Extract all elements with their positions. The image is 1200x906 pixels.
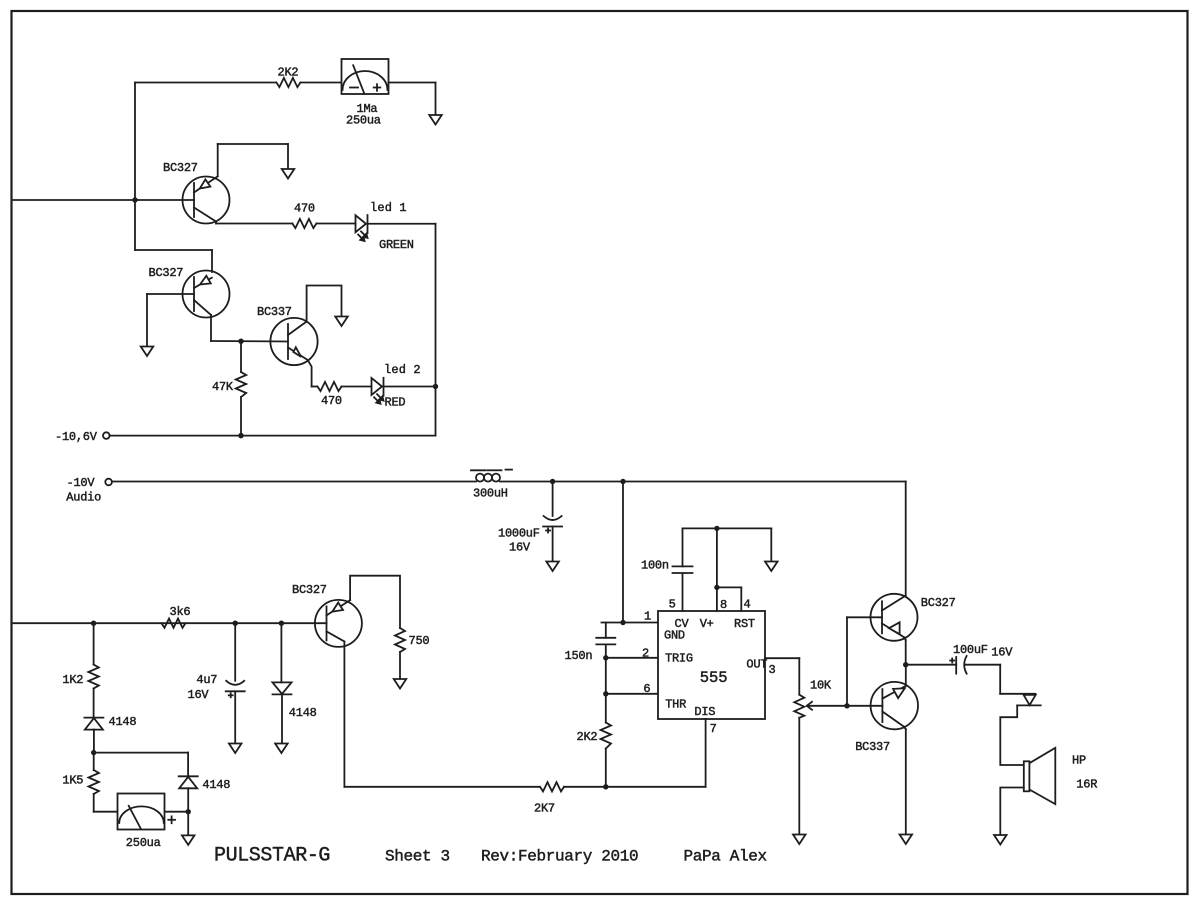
wire pin 1 GND [602,622,659,624]
wire Q4 emitter to output node [905,638,906,665]
svg-text:100n: 100n [641,559,669,573]
svg-text:THR: THR [665,697,686,711]
pin number 3 [769,663,776,677]
svg-text:4: 4 [744,598,751,612]
terminal -10,6V [55,430,110,444]
transistor Q1 BC327 [163,161,230,224]
wire connector to speaker [1000,705,1024,765]
diode 4148 D3 [273,682,317,720]
wire 470 to led1 [316,223,355,225]
wire Q2 collector down [211,315,288,342]
node pin2 junction [603,655,608,660]
node pin8 top junction [714,526,719,531]
node Q2/Q3/47K junction [238,339,243,344]
resistor 47K [212,341,246,435]
wire -10V rail left [112,481,476,483]
transistor Q4 BC327 [871,594,956,641]
svg-text:RST: RST [734,617,755,631]
svg-text:1000uF: 1000uF [498,527,540,541]
title PULSSTAR-G [214,845,330,868]
wire pin 2 TRIG [606,657,658,659]
svg-text:GREEN: GREEN [379,238,414,252]
meter M2 250ua [118,794,176,851]
capacitor 100uF 16V [950,643,1013,674]
resistor 2K2 [276,66,300,88]
pin number 1 [644,610,651,624]
wire Q4 collector to rail [905,482,907,596]
wire D1 to junction [93,730,95,753]
resistor 2K7 [534,782,564,815]
svg-text:led 1: led 1 [370,201,407,215]
pin number 7 [710,722,717,736]
wire 4148 D3 top [280,623,282,682]
diode 4148 D1 [84,715,136,730]
meter M1 1Ma 250ua [342,59,389,128]
wire to ground M2 [187,812,189,835]
node 555 supply junction [620,479,625,484]
svg-text:16V: 16V [188,688,210,702]
resistor 1K2 [62,665,98,689]
svg-text:HP: HP [1072,754,1086,768]
svg-text:led 2: led 2 [384,363,421,377]
ground Q3 collector [335,317,348,327]
svg-text:GND: GND [664,629,685,643]
svg-text:Rev:February 2010: Rev:February 2010 [481,848,638,866]
svg-text:BC337: BC337 [855,740,890,754]
svg-text:1K2: 1K2 [62,673,83,687]
svg-text:BC327: BC327 [292,583,327,597]
svg-text:BC337: BC337 [257,305,292,319]
node 4u7 junction [233,621,238,626]
ground Q1 emitter [282,169,295,179]
node pin4 branch junction [714,585,719,590]
svg-text:8: 8 [720,598,727,612]
wire Q3 collector to ground [307,286,342,322]
wire D3 to ground [281,694,283,743]
ground M2 [182,835,195,845]
diode 4148 D2 [179,776,231,792]
wire input net to Q1 base [14,199,195,201]
resistor 2K2 timing [577,723,612,749]
capacitor 4u7 16V [188,673,245,702]
svg-text:1: 1 [644,610,651,624]
svg-text:555: 555 [700,669,728,687]
ground D3 [275,744,288,754]
node output junction [903,662,908,667]
svg-text:5: 5 [669,598,676,612]
wire Q6 collector down [344,642,539,787]
wire meter to ground [389,83,436,115]
svg-text:V+: V+ [700,617,714,631]
svg-text:4148: 4148 [109,715,137,729]
svg-text:47K: 47K [212,380,234,394]
wire -10,6V rail [110,435,436,437]
wire pin 7 DIS [705,719,707,787]
ground Q2 base [141,347,154,357]
pin number 8 [720,598,727,612]
capacitor 1000uF 16V [498,516,562,555]
wire 1K5 top [93,753,95,770]
wire 150n top [605,623,607,638]
subtitle PaPa Alex [684,848,767,866]
potentiometer 10K [794,679,847,718]
pin number 5 [669,598,676,612]
svg-text:PaPa Alex: PaPa Alex [684,848,767,866]
wire 2K7 to DIS [564,786,706,788]
wire pin 4 RST [717,587,741,611]
wire Q6 emitter over to 750 [350,576,400,628]
node pin6 junction [603,691,608,696]
node meter out junction [186,809,191,814]
capacitor 100n [641,559,693,574]
wire pin 3 OUT [765,658,799,694]
wire -10V rail right [500,481,906,483]
wire D2 to meter out [187,788,189,812]
wire 4u7 to ground [234,691,236,743]
wire pin 8 V+ [716,528,718,611]
svg-text:4u7: 4u7 [196,673,217,687]
node wiper junction [844,703,849,708]
svg-text:7: 7 [710,722,717,736]
wire audio input net [14,622,327,624]
subtitle Rev February 2010 [481,848,638,866]
wire 100n to ground rail [683,528,772,566]
transistor Q2 BC327 [149,266,230,318]
wire pot to ground [798,718,800,834]
wire 1K5 to meter [94,794,118,812]
svg-text:470: 470 [294,202,315,216]
node 47K bottom junction [238,433,243,438]
pin number 2 [642,647,649,661]
ground 750 [394,679,407,689]
ground speaker [994,835,1007,845]
LED led1 GREEN [356,201,414,252]
wire 1K2 to diode [93,689,95,718]
inductor 300uH [471,470,512,501]
wire 150n to pin2/pin6/2K2 [605,644,607,722]
svg-text:2K2: 2K2 [278,66,299,80]
transistor Q3 BC337 [257,305,318,387]
wire Q5 emitter to output node [905,665,907,686]
terminal -10V Audio [66,476,112,505]
wire 1000uF top [552,482,554,517]
LED led2 RED [372,363,421,410]
wire 1K2 top [93,623,95,664]
svg-text:4148: 4148 [289,706,317,720]
wire 470b to led2 [342,386,372,388]
svg-text:3: 3 [769,663,776,677]
svg-text:BC327: BC327 [149,266,184,280]
pin number 4 [744,598,751,612]
wire 2K2 to meter [300,82,341,84]
node junction input/2K2 branch [132,197,137,202]
svg-text:16R: 16R [1076,778,1097,792]
wire junction to D2 branch [94,753,188,777]
svg-text:16V: 16V [991,646,1013,660]
node pin1 junction [620,620,625,625]
svg-text:2K2: 2K2 [577,730,598,744]
svg-text:4148: 4148 [202,778,230,792]
wire Q2 base to ground [147,294,194,346]
wire output to 100uF [906,664,957,666]
svg-text:Audio: Audio [66,491,101,505]
svg-text:250ua: 250ua [126,836,161,850]
svg-text:6: 6 [643,682,650,696]
connector arrow symbol [1017,695,1040,706]
wire 100uF to connector [964,665,1035,694]
ground 100n rail [765,562,778,572]
wire 750 to ground [399,652,401,679]
node 1K5 junction [91,750,96,755]
wire pin 5 CV [682,573,684,611]
svg-text:2: 2 [642,647,649,661]
svg-text:750: 750 [409,634,430,648]
transistor Q6 BC327 [292,583,362,647]
wire pin 6 THR [606,693,658,695]
wire led1 to right bus [368,223,436,225]
wire Q5 collector to ground [904,727,906,834]
ground 1000uF [546,562,559,572]
svg-text:-10V: -10V [67,476,96,490]
wire meter M2 out [165,811,189,813]
svg-text:BC327: BC327 [163,161,198,175]
transistor Q5 BC337 [855,682,918,754]
resistor 3k6 [162,605,191,628]
wire 2K2 to DIS net [605,749,607,787]
svg-text:OUT: OUT [746,657,767,671]
wire wiper to Q4 base [847,617,882,706]
ground 4u7 [229,744,242,754]
speaker HP 16R [1024,748,1097,804]
wire Q1 emitter to ground [218,144,288,176]
wire wiper to Q5 base [847,705,882,707]
wire Q2 emitter up [135,250,212,272]
node 1000uF junction [550,479,555,484]
node DIS junction [603,784,608,789]
ground pot [793,835,806,845]
svg-text:BC327: BC327 [921,596,956,610]
svg-text:Sheet 3: Sheet 3 [385,848,450,866]
resistor 470 led1 [292,202,316,229]
resistor 1K5 [62,770,99,794]
svg-text:250ua: 250ua [346,114,381,128]
wire to resistor R 2K2 [135,82,276,84]
svg-text:16V: 16V [509,541,531,555]
node 1K2 junction [91,621,96,626]
node 4148 junction [279,621,284,626]
svg-text:150n: 150n [565,649,593,663]
ground Q5 [900,835,913,845]
svg-text:470: 470 [321,394,342,408]
svg-text:100uF: 100uF [953,643,988,657]
svg-text:DIS: DIS [694,705,715,719]
svg-text:TRIG: TRIG [665,651,693,665]
pin number 6 [643,682,650,696]
wire 1000uF to ground [552,527,554,562]
node led2 junction [433,384,438,389]
wire speaker to ground [1000,788,1024,835]
wire 2K2 branch vertical [134,83,136,251]
svg-text:300uH: 300uH [473,487,508,501]
wire right bus vertical [435,224,437,436]
resistor 750 [395,628,429,652]
svg-text:10K: 10K [810,679,832,693]
subtitle Sheet 3 [385,848,450,866]
wire 4u7 top [234,623,236,681]
resistor 470 led2 [318,382,342,408]
node 47K on rail [238,433,243,438]
svg-text:-10,6V: -10,6V [55,430,98,444]
op-amp U1 555 timer [658,611,767,719]
ground after M1 [429,115,442,125]
wire Q3 emitter to R470b [312,386,317,388]
svg-text:1K5: 1K5 [62,774,83,788]
wire 555 pin1 branch vertical [622,482,624,623]
svg-text:3k6: 3k6 [170,605,191,619]
svg-text:2K7: 2K7 [534,802,555,816]
wire Q1 collector to R470 [216,222,292,224]
svg-text:PULSSTAR-G: PULSSTAR-G [214,845,330,868]
wire led2 to right bus [384,386,436,388]
svg-text:RED: RED [385,396,406,410]
capacitor 150n [565,638,616,663]
